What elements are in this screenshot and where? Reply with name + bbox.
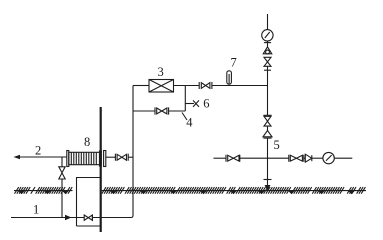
cone element (triangle up) (263, 131, 272, 137)
wire (312, 157, 323, 159)
ground hatch band left of pit (14, 187, 73, 194)
wire: line 5 right end (334, 157, 352, 159)
wire: to cross junction (240, 157, 289, 159)
flange below gauge (264, 42, 271, 44)
gate valve on main line (with flanges) (199, 82, 212, 89)
gate valve bypass (155, 107, 169, 114)
pressure gauge (top) (262, 30, 273, 41)
wire: valve to left riser (128, 156, 133, 158)
svg-text:2: 2 (35, 144, 41, 158)
vertical valve (hourglass) mid stack (264, 116, 271, 126)
wire: to tee (267, 66, 269, 115)
wire: drop to line 1 (61, 179, 63, 218)
wire: drop from line 2 junction (61, 157, 63, 167)
svg-text:8: 8 (84, 135, 90, 149)
gate valve line 5 left (226, 155, 240, 162)
flange above mid valve (263, 114, 271, 116)
thermometer 7 (227, 71, 232, 84)
wire: riser of bypass to main line (184, 86, 186, 112)
leader line for label 4 (182, 113, 187, 121)
flange below cone (263, 137, 271, 139)
pit (valve chamber) walls (77, 178, 101, 227)
safety valve (triangle with spring circle) (263, 47, 272, 54)
wire: bypass right segment (169, 110, 186, 112)
svg-text:7: 7 (231, 56, 237, 70)
drain arrow into ground (265, 185, 271, 191)
hose coil 8: body with winding (69, 152, 100, 164)
wire: to cross junction and down to drain (267, 138, 269, 179)
svg-text:3: 3 (158, 65, 164, 79)
wire: vent stub 6 (185, 103, 194, 105)
ground hatch band right of pit (102, 187, 366, 194)
gate valve in pit on line 1 (84, 215, 92, 220)
wire: main line from corner to flow box 3 (133, 85, 149, 87)
wire (267, 41, 269, 47)
wire: coil to valve (106, 156, 116, 158)
hose coil 8: left flange (67, 151, 69, 167)
vertical valve (hourglass) top stack (264, 57, 271, 66)
wire (267, 126, 269, 130)
vertical valve (hourglass) on left drop (59, 167, 65, 179)
wire: line 5 left segment (214, 157, 227, 159)
flange (264, 69, 271, 71)
flow element box 3 (crossed rectangle) (149, 80, 174, 93)
wire: line 1 from left edge (11, 217, 84, 219)
closed vent symbol X (6) (193, 100, 199, 107)
svg-text:6: 6 (203, 97, 209, 111)
inlet flow arrow on line 1 (65, 215, 72, 220)
wire: box 3 to valve (174, 85, 200, 87)
wire: line 2 (19, 156, 67, 158)
wire: bypass line 4 left segment (133, 110, 155, 112)
wire: riser stub above gauge (267, 14, 269, 30)
hose coil 8: right flange pair (100, 151, 106, 167)
wire: line 1 through pit to riser (92, 217, 131, 219)
building wall (bold vertical line) (100, 107, 102, 232)
wire: left riser x=132.5 (main down-comer) (132, 86, 134, 216)
wire (304, 157, 306, 159)
gate valve right of coil (115, 154, 128, 161)
svg-text:4: 4 (186, 116, 193, 130)
pressure gauge (line 5) (323, 152, 334, 163)
outlet arrow 2 (14, 155, 21, 159)
svg-text:5: 5 (274, 138, 280, 152)
wire: corner into line 1 (131, 216, 133, 218)
check valve (right-pointing triangle) (305, 154, 312, 162)
wire (267, 180, 269, 187)
svg-text:1: 1 (33, 203, 39, 217)
gate valve line 5 right (289, 155, 304, 162)
wire: valve to tee at right riser (212, 85, 268, 87)
drain flange (264, 179, 272, 181)
